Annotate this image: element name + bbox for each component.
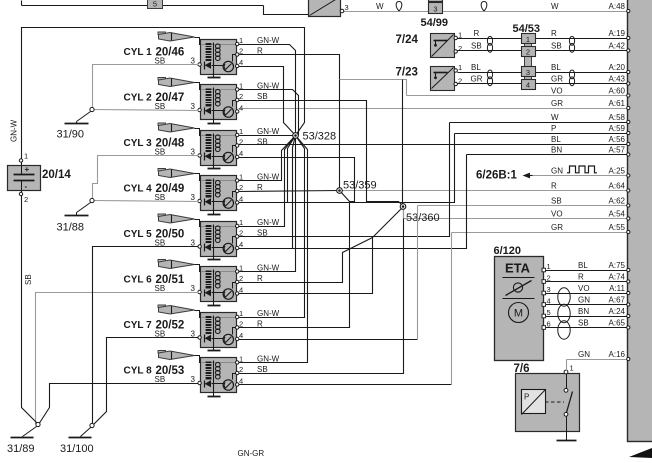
ground under coil 20/49 <box>208 214 221 216</box>
wire VO 6/120:3 to ECU A:11 <box>542 284 630 295</box>
wire GN-W 53/328 to CYL4 pin1 <box>239 136 296 181</box>
spark plug CYL 1 <box>158 32 195 41</box>
svg-text:BN: BN <box>578 307 589 316</box>
svg-text:1: 1 <box>547 262 551 271</box>
ground 31/89 <box>7 422 40 455</box>
svg-text:A:65: A:65 <box>609 319 626 328</box>
inline connector droplet on W wire (right) <box>481 2 487 12</box>
inline connector 5 (small box on top wire) <box>148 0 163 9</box>
twisted pair symbol R/SB left <box>487 36 492 45</box>
svg-text:2: 2 <box>458 44 462 53</box>
wire GN 6/120:4 to ECU A:67 <box>542 296 630 307</box>
svg-text:CYL 5: CYL 5 <box>124 229 153 240</box>
pin labels coil 20/52 <box>155 309 280 340</box>
continuation arrow bottom right <box>629 448 652 458</box>
svg-text:BL: BL <box>578 261 588 270</box>
wire branch to VO A:60 <box>340 80 407 96</box>
svg-text:GN-W: GN-W <box>257 218 280 227</box>
spark plug CYL 2 <box>158 78 195 87</box>
spark plug CYL 8 <box>158 351 195 360</box>
svg-text:4: 4 <box>547 297 551 306</box>
svg-text:3: 3 <box>191 375 196 384</box>
svg-text:2: 2 <box>24 195 28 204</box>
svg-text:2: 2 <box>239 92 243 101</box>
svg-text:54/99: 54/99 <box>421 17 449 29</box>
junction 53/328 <box>293 131 336 143</box>
svg-text:53/359: 53/359 <box>343 180 377 192</box>
twisted pair symbol BL/GR right <box>569 70 574 79</box>
wire CYL7 pin4 to SB A:62 <box>239 339 418 341</box>
spark plug CYL 4 <box>158 169 195 178</box>
svg-text:A:48: A:48 <box>609 2 626 11</box>
wire R to ECU pin A:19 <box>458 29 630 40</box>
svg-text:2: 2 <box>239 274 243 283</box>
wire CYL6 pin2 branch <box>239 238 373 283</box>
svg-text:A:24: A:24 <box>609 307 626 316</box>
connector 54/99 <box>421 0 449 29</box>
twisted pair symbol BL/GR left <box>487 70 492 79</box>
svg-text:R: R <box>551 182 557 191</box>
svg-text:R: R <box>257 183 263 192</box>
svg-text:2: 2 <box>458 77 462 86</box>
wire SB CYL2 pin3 to ground node 31/90 <box>93 110 199 111</box>
wire R 6/120:2 to ECU A:74 <box>542 273 630 284</box>
ground under 7/6 <box>557 440 577 442</box>
wire riser above 53/360 <box>402 80 404 207</box>
wire spark plug to coil 20/50 <box>195 220 201 227</box>
svg-text:VO: VO <box>551 210 563 219</box>
pin labels coil 20/49 <box>155 173 280 204</box>
wire VO to ECU pin A:54 <box>404 210 630 221</box>
svg-text:GR: GR <box>551 75 563 84</box>
svg-text:2: 2 <box>239 365 243 374</box>
svg-text:SB: SB <box>471 42 482 51</box>
wire GR to ECU pin A:61 <box>239 99 630 110</box>
ground under coil 20/46 <box>208 77 221 79</box>
wire W from relay to A:48 <box>376 2 384 11</box>
svg-text:4: 4 <box>526 81 530 90</box>
wire CYL8 pin4 to GR A:55 <box>239 384 452 386</box>
pressure switch 7/6 <box>514 363 580 441</box>
wire BN to ECU pin A:57 <box>467 146 630 157</box>
svg-text:GN: GN <box>551 167 563 176</box>
svg-text:31/89: 31/89 <box>7 443 35 455</box>
spark plug CYL 5 <box>158 214 195 223</box>
svg-text:SB: SB <box>578 319 589 328</box>
wire 53/360 riser to VO A:54 <box>403 207 405 219</box>
svg-text:A:54: A:54 <box>609 210 626 219</box>
wire spark plug to coil 20/53 <box>195 356 201 363</box>
svg-text:BL: BL <box>471 63 481 72</box>
ground 31/88 <box>57 198 95 233</box>
wire spark plug to coil 20/51 <box>195 265 201 272</box>
svg-text:3: 3 <box>191 284 196 293</box>
svg-text:GN-GR: GN-GR <box>238 449 265 458</box>
svg-text:A:64: A:64 <box>609 182 626 191</box>
svg-text:VO: VO <box>578 284 590 293</box>
wire BL to ECU pin A:56 <box>239 135 630 146</box>
wire CYL8 pin2 to 53/360 <box>239 207 404 374</box>
svg-text:1: 1 <box>24 152 28 161</box>
twisted wires symbol 6/120 pins 3-6 <box>558 288 570 306</box>
svg-text:CYL 6: CYL 6 <box>124 275 153 286</box>
svg-text:GN: GN <box>578 350 590 359</box>
wire GN-W 53/328 to CYL5 pin1 <box>239 136 296 227</box>
svg-text:A:43: A:43 <box>609 75 626 84</box>
svg-text:2: 2 <box>547 274 551 283</box>
svg-text:P: P <box>551 124 556 133</box>
wire GN to ECU pin A:25 <box>533 167 630 178</box>
wire GN 7/6:1 to ECU A:16 <box>567 350 630 371</box>
svg-text:53/328: 53/328 <box>303 131 337 143</box>
svg-text:GR: GR <box>551 99 563 108</box>
wire SB to ECU pin A:42 <box>458 42 630 53</box>
svg-text:SB: SB <box>24 274 33 285</box>
ground under coil 20/53 <box>208 396 221 398</box>
svg-text:A:59: A:59 <box>609 124 626 133</box>
svg-text:7/24: 7/24 <box>396 34 419 46</box>
wire BL 6/120:1 to ECU A:75 <box>542 261 630 272</box>
svg-text:A:74: A:74 <box>609 273 626 282</box>
svg-text:4: 4 <box>239 331 243 340</box>
svg-text:2: 2 <box>526 48 530 57</box>
svg-text:GN-W: GN-W <box>257 127 280 136</box>
wire SB 6/120:6 to ECU A:65 <box>542 319 630 330</box>
wire spark plug to coil 20/48 <box>195 129 201 136</box>
wire CYL2 pin2 to junction 53/360 <box>239 101 404 207</box>
svg-text:A:16: A:16 <box>609 350 626 359</box>
svg-text:A:62: A:62 <box>609 197 626 206</box>
ground 31/90 <box>57 107 95 140</box>
svg-text:1: 1 <box>239 36 243 45</box>
svg-text:A:58: A:58 <box>609 113 626 122</box>
pin labels coil 20/47 <box>155 82 280 113</box>
svg-text:R: R <box>551 29 557 38</box>
wire P to ECU pin A:59 <box>455 124 630 135</box>
twisted pair symbol R/SB right <box>569 36 574 45</box>
wire spark plug to coil 20/47 <box>195 83 201 90</box>
wire SB CYL4 pin3 to ground node 31/88 <box>94 201 199 202</box>
svg-text:A:11: A:11 <box>609 284 625 293</box>
svg-text:A:55: A:55 <box>609 223 626 232</box>
wire spark plug to coil 20/49 <box>195 174 201 181</box>
wire GN-W battery bus from 20/14 to junction 53/328 <box>22 28 305 166</box>
svg-text:GR: GR <box>551 223 563 232</box>
svg-text:3: 3 <box>345 3 349 12</box>
svg-text:A:25: A:25 <box>609 167 626 176</box>
svg-text:20/14: 20/14 <box>42 169 71 181</box>
svg-text:W: W <box>551 2 559 11</box>
label 6/26B:1 with arrow <box>476 170 533 182</box>
spark plug CYL 3 <box>158 123 195 132</box>
svg-text:3: 3 <box>526 68 530 77</box>
svg-text:GN: GN <box>578 296 590 305</box>
ignition coil 20/50 (CYL 5) <box>124 222 239 260</box>
junction 53/359 <box>337 180 377 194</box>
wire BN 6/120:5 to ECU A:24 <box>542 307 630 318</box>
wire SB CYL6 pin3 to ground node 31/89 <box>36 293 199 425</box>
wire BL to ECU pin A:20 <box>458 63 630 74</box>
svg-text:BL: BL <box>551 63 561 72</box>
pin labels coil 20/46 <box>155 36 280 67</box>
svg-text:R: R <box>257 274 263 283</box>
pin labels coil 20/48 <box>155 127 280 158</box>
wire SB CYL1 pin3 to ground node 31/90 <box>93 65 199 110</box>
svg-text:SB: SB <box>155 375 166 384</box>
wire W to ECU pin A:58 <box>450 113 630 124</box>
ignition coil 20/53 (CYL 8) <box>124 358 239 397</box>
wire GN-W 53/328 to CYL6 pin1 <box>239 136 296 272</box>
wire GN-W 53/328 branch to CYL5 pin4 <box>293 136 296 249</box>
wire GN-W 53/328 branch to CYL4 pin4 <box>288 136 296 203</box>
svg-text:6/120: 6/120 <box>494 245 522 257</box>
svg-text:1: 1 <box>458 63 462 72</box>
wire CYL5 pin2 to W A:58 <box>239 123 450 237</box>
svg-text:5: 5 <box>547 308 551 317</box>
svg-text:A:20: A:20 <box>609 63 626 72</box>
svg-text:A:56: A:56 <box>609 135 626 144</box>
svg-text:W: W <box>551 113 559 122</box>
wire CYL3 pin4 to 53/359 <box>239 158 355 202</box>
svg-text:6: 6 <box>547 320 551 329</box>
svg-text:SB: SB <box>551 42 562 51</box>
svg-text:GN-W: GN-W <box>257 309 280 318</box>
svg-text:W: W <box>376 2 384 11</box>
wire CYL4 pin4 to P A:59 <box>239 134 455 203</box>
wire battery 20/14 pin2 to ground node 31/89 <box>22 191 39 425</box>
ground under coil 20/51 <box>208 305 221 307</box>
wire CYL4 pin2 to 53/359 <box>239 191 340 192</box>
wire SB to ECU pin A:62 <box>418 197 630 208</box>
svg-text:4: 4 <box>239 240 243 249</box>
svg-text:BN: BN <box>551 146 562 155</box>
svg-text:R: R <box>578 273 584 282</box>
junction 53/360 <box>400 204 439 224</box>
svg-text:GR: GR <box>471 75 483 84</box>
svg-text:SB: SB <box>257 92 268 101</box>
svg-text:CYL 2: CYL 2 <box>124 93 153 104</box>
wire CYL1 pin2 to junction 53/359 <box>239 55 340 191</box>
svg-text:A:42: A:42 <box>609 42 626 51</box>
svg-text:7/23: 7/23 <box>396 67 418 79</box>
svg-text:GN-W: GN-W <box>257 36 280 45</box>
ignition coil 20/52 (CYL 7) <box>124 313 239 351</box>
pin labels coil 20/53 <box>155 355 280 386</box>
svg-text:M: M <box>514 308 523 320</box>
throttle unit 6/120 (ETA) <box>494 245 544 361</box>
svg-text:1: 1 <box>458 31 462 40</box>
wire GN-W 53/328 to CYL8 pin1 <box>239 136 308 363</box>
ignition coil 20/47 (CYL 2) <box>124 85 239 124</box>
ground under coil 20/48 <box>208 168 221 170</box>
svg-text:CYL 7: CYL 7 <box>124 320 153 331</box>
wire spark plug to coil 20/52 <box>195 311 201 318</box>
knock sensor 7/24 <box>396 31 463 58</box>
svg-text:4: 4 <box>239 104 243 113</box>
relay box top (with diagonal) <box>309 0 349 17</box>
wire SB CYL8 pin3 to ground node 31/89 <box>39 384 199 425</box>
wire SB CYL7 pin3 to ground node 31/100 <box>93 338 199 426</box>
square-wave signal symbol on GN A:25 wire <box>567 166 597 173</box>
ignition coil 20/48 (CYL 3) <box>124 131 239 169</box>
svg-text:+: + <box>25 165 30 174</box>
svg-text:2: 2 <box>239 138 243 147</box>
svg-text:A:19: A:19 <box>609 29 626 38</box>
wire CYL5 pin4 to BN A:57 <box>239 155 467 249</box>
svg-text:1: 1 <box>570 364 574 373</box>
ignition coil 20/51 (CYL 6) <box>124 267 239 306</box>
svg-text:SB: SB <box>155 284 166 293</box>
ignition coil 20/46 (CYL 1) <box>124 40 239 78</box>
svg-text:VO: VO <box>551 87 563 96</box>
ground 31/100 <box>60 423 94 455</box>
svg-text:3: 3 <box>547 285 551 294</box>
svg-text:CYL 3: CYL 3 <box>124 138 153 149</box>
svg-text:P: P <box>524 393 529 402</box>
svg-text:53/360: 53/360 <box>406 212 440 224</box>
svg-text:4: 4 <box>239 58 243 67</box>
knock sensor 7/23 <box>396 63 463 91</box>
svg-text:31/100: 31/100 <box>60 443 94 455</box>
svg-text:SB: SB <box>551 197 562 206</box>
suppression capacitor 20/14 <box>8 152 72 205</box>
svg-text:ETA: ETA <box>505 261 531 276</box>
connector 54/53 <box>513 23 541 90</box>
wire GN-W CYL1 pin4 to 53/328 <box>239 67 296 136</box>
svg-text:A:67: A:67 <box>609 296 626 305</box>
ground under coil 20/47 <box>208 123 221 125</box>
spark plug CYL 6 <box>158 260 195 269</box>
svg-text:31/88: 31/88 <box>57 222 85 234</box>
wire 53/360 branch to CYL6 <box>239 207 404 294</box>
svg-text:1: 1 <box>239 218 243 227</box>
svg-text:1: 1 <box>239 127 243 136</box>
svg-text:CYL 4: CYL 4 <box>124 184 153 195</box>
ignition coil 20/49 (CYL 4) <box>124 176 239 215</box>
inline connector droplet on W wire (left) <box>396 2 402 12</box>
wire GN-W CYL3 pin1 to 53/328 <box>239 135 296 137</box>
wire GR to ECU pin A:43 <box>458 75 630 86</box>
svg-text:1: 1 <box>239 309 243 318</box>
svg-text:A:61: A:61 <box>609 99 626 108</box>
pin labels coil 20/51 <box>155 264 280 295</box>
wire W to ECU pin A:48 <box>344 2 630 13</box>
pin labels coil 20/50 <box>155 218 280 249</box>
svg-text:3: 3 <box>191 102 196 111</box>
svg-text:31/90: 31/90 <box>57 129 85 141</box>
wire GN-W 53/328 to CYL7 pin1 <box>239 136 305 318</box>
svg-text:GN-W: GN-W <box>10 119 19 142</box>
ground under coil 20/50 <box>208 259 221 261</box>
spark plug CYL 7 <box>158 305 195 314</box>
ECU module edge connector (right bar) <box>628 0 652 442</box>
svg-text:6/26B:1: 6/26B:1 <box>476 170 518 182</box>
svg-text:1: 1 <box>526 35 530 44</box>
wire VO to ECU pin A:60 <box>407 87 630 98</box>
wire GN-W CYL2 pin1 to 53/328 <box>239 90 299 136</box>
svg-text:3: 3 <box>433 5 437 14</box>
svg-text:A:57: A:57 <box>609 146 626 155</box>
svg-text:A:75: A:75 <box>609 261 626 270</box>
wire SB CYL5 pin3 to ground node 31/100 <box>93 247 199 426</box>
svg-text:4: 4 <box>239 149 243 158</box>
wire GR to ECU pin A:55 <box>452 223 630 234</box>
svg-text:-: - <box>25 182 28 191</box>
wire GN-W CYL1 pin1 to 53/328 <box>239 45 296 136</box>
svg-text:3: 3 <box>191 193 196 202</box>
wire spark plug to coil 20/46 <box>195 38 201 45</box>
wire from top-left to relay box (upper feed) <box>22 1 310 15</box>
svg-text:5: 5 <box>153 0 157 8</box>
svg-text:CYL 1: CYL 1 <box>124 47 153 58</box>
svg-text:A:60: A:60 <box>609 87 626 96</box>
svg-text:R: R <box>474 29 480 38</box>
wire R to ECU pin A:64 <box>340 182 630 193</box>
ground under coil 20/52 <box>208 350 221 352</box>
wire SB CYL3 pin3 to ground node 31/88 <box>93 156 199 201</box>
svg-text:BL: BL <box>551 135 561 144</box>
wire CYL7 pin2 to 53/359 <box>239 191 350 328</box>
svg-text:SB: SB <box>257 365 268 374</box>
svg-text:SB: SB <box>257 138 268 147</box>
svg-text:CYL 8: CYL 8 <box>124 366 153 377</box>
svg-text:2: 2 <box>239 183 243 192</box>
